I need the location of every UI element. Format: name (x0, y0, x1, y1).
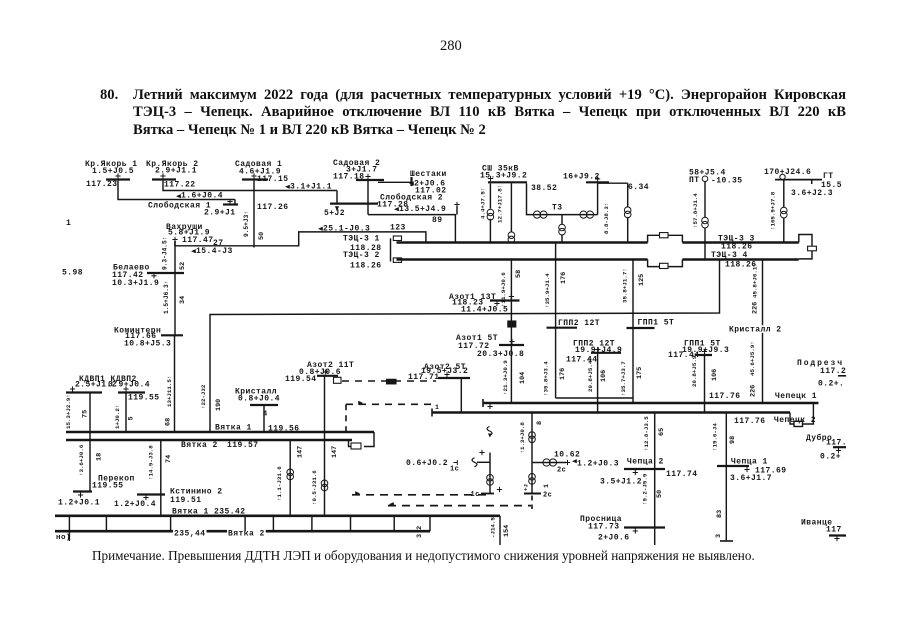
svg-text:Чепецк 1: Чепецк 1 (775, 392, 817, 401)
svg-text:Чепца 2: Чепца 2 (627, 458, 664, 467)
svg-text:50: 50 (656, 490, 664, 498)
svg-text:20.3+J0.8: 20.3+J0.8 (477, 350, 524, 359)
svg-text:6.34: 6.34 (628, 183, 649, 192)
wire Azot1-13T feeder (x=511) (510, 260, 512, 315)
bus Vyatka 1 110kV (214, 423, 253, 431)
feeder GPP1 from bus2 (x=633) (632, 260, 634, 328)
transformer T1 of SSh35 (489, 183, 491, 208)
svg-text:↑19.6-J4: ↑19.6-J4 (712, 423, 719, 451)
svg-text:1: 1 (543, 484, 551, 488)
svg-text:0.9+J0.4: 0.9+J0.4 (108, 381, 150, 390)
station Belaevo bus bar (147, 272, 184, 274)
dashed 220kV line Vyatka-Chepetsk N1 (352, 494, 487, 496)
svg-text:Вятка 2: Вятка 2 (181, 441, 218, 450)
svg-text:4: 4 (263, 411, 268, 419)
svg-text:147: 147 (297, 446, 305, 458)
footnote (92, 548, 755, 564)
wire Slobodskaya2 line to TEC bus (368, 215, 455, 243)
bus coupler right of TEC-3 3/4 (799, 235, 812, 259)
svg-text:117: 117 (826, 526, 842, 535)
svg-text:↑3.6+J0.6: ↑3.6+J0.6 (78, 444, 85, 476)
svg-text:15.3+J9.2: 15.3+J9.2 (480, 172, 527, 181)
svg-text:5+J2: 5+J2 (324, 209, 345, 218)
svg-text:Вятка 2: Вятка 2 (228, 530, 265, 539)
svg-text:↑1.3+J0.8: ↑1.3+J0.8 (519, 422, 526, 454)
svg-text:Т3: Т3 (552, 204, 563, 213)
svg-text:176: 176 (559, 368, 567, 380)
svg-text:но): но) (56, 534, 71, 542)
svg-text:9.5+J3↑: 9.5+J3↑ (243, 211, 250, 237)
svg-text:34: 34 (179, 296, 187, 304)
svg-text:9.3-J4.5↑: 9.3-J4.5↑ (162, 237, 169, 270)
svg-text:1+J0.2↑: 1+J0.2↑ (114, 405, 121, 429)
bus Vyatka 2 220kV (55, 530, 430, 533)
svg-text:1: 1 (435, 404, 439, 411)
svg-text:0.2+.: 0.2+. (818, 379, 844, 388)
svg-text:190: 190 (215, 399, 223, 411)
svg-text:98: 98 (729, 436, 737, 444)
dashed line Vyatka-Chepetsk (y=404) (346, 403, 434, 405)
svg-text:↑165.9+J7.8: ↑165.9+J7.8 (770, 191, 777, 230)
svg-text:20.8+J5.4↑: 20.8+J5.4↑ (587, 357, 594, 392)
svg-text:2.9+J1: 2.9+J1 (204, 209, 236, 218)
feeder Cheptsa 1 (x=726.3) (725, 413, 727, 542)
svg-text:3: 3 (715, 534, 723, 538)
wire KDVP1 to Vyatka1 and Perekop (89, 393, 91, 492)
station Sadovaya 2 bus bar (356, 179, 384, 181)
svg-text:52: 52 (179, 262, 187, 270)
wire Slobodskaya1 stub (234, 200, 236, 205)
flow label 25.1-J0.3 123 (318, 227, 323, 231)
svg-text:5: 5 (128, 416, 136, 420)
station Sadovaya 1 bus bar (242, 178, 268, 180)
svg-text:170+J24.6: 170+J24.6 (764, 168, 811, 177)
three-winding transformer T3 (527, 183, 598, 214)
svg-text:83: 83 (716, 510, 724, 518)
svg-text:226: 226 (752, 302, 760, 314)
svg-text:2с: 2с (557, 467, 566, 475)
svg-text:ПТ: ПТ (689, 176, 700, 185)
wire Kr.Yakor1 to Slobodskaya1 (118, 181, 235, 200)
svg-text:226: 226 (750, 385, 758, 397)
svg-text:1.2+J0.4: 1.2+J0.4 (114, 500, 156, 509)
svg-text:119.54: 119.54 (285, 375, 317, 384)
svg-text:1: 1 (66, 219, 71, 228)
wire GPP2 lower (x=555.6) (555, 328, 557, 399)
dashed 220kV line Vyatka-Chepetsk N2 (388, 505, 531, 507)
cable curl top (487, 427, 492, 436)
branch 2s (x=532) (531, 413, 533, 494)
svg-text:↑14.9-J3.8: ↑14.9-J3.8 (148, 445, 155, 480)
station Slobodskaya 1 bus bar (223, 203, 238, 205)
transformer T2 of SSh35 (510, 183, 512, 231)
svg-text:ТЭЦ-3 2: ТЭЦ-3 2 (343, 251, 380, 260)
svg-text:4.4+J7.5↑: 4.4+J7.5↑ (480, 188, 487, 219)
svg-text:58: 58 (515, 270, 523, 278)
svg-text:15.3+J2.9↑: 15.3+J2.9↑ (65, 394, 72, 429)
wire Sadovaya1 down to 15.4-J3 line (253, 181, 255, 248)
wire Vakrushi-Belaevo-Komintern vertical (174, 241, 176, 337)
wire Kr.Yakor2 to Sadovaya line (163, 181, 337, 191)
bus coupler mid between TEC-3 1/2 and 3/4 (648, 235, 683, 242)
svg-text:3.6+J2.3: 3.6+J2.3 (791, 189, 833, 198)
wire Komintern to Vyatka1 (174, 335, 176, 431)
svg-text:13.5+J4.9: 13.5+J4.9 (399, 205, 446, 214)
svg-text:235,44: 235,44 (174, 530, 206, 539)
svg-text:123: 123 (390, 224, 406, 233)
svg-text:↑9.2-J5.9: ↑9.2-J5.9 (642, 473, 649, 505)
bus Vyatka 2 110kV (180, 441, 219, 449)
bus Vyatka 1 220kV (171, 507, 247, 515)
svg-text:117.23: 117.23 (86, 180, 118, 189)
svg-text:20.8+J5.9↑: 20.8+J5.9↑ (691, 352, 698, 387)
svg-text:-J14.5: -J14.5 (490, 517, 497, 538)
svg-text:117.76: 117.76 (709, 392, 741, 401)
svg-text:ГПП1 5Т: ГПП1 5Т (638, 319, 675, 328)
svg-text:12.7+J17.8↑: 12.7+J17.8↑ (497, 185, 504, 223)
svg-text:119.55: 119.55 (128, 394, 160, 403)
svg-text:Кристалл 2: Кристалл 2 (729, 326, 782, 335)
svg-text:45.6+J5.9↑: 45.6+J5.9↑ (749, 341, 756, 376)
main tie line TEC-3 4 to Vyatka (y=314) (210, 260, 720, 432)
svg-text:154: 154 (503, 525, 511, 537)
svg-text:2.9+J1.1: 2.9+J1.1 (155, 167, 197, 176)
svg-text:117.22: 117.22 (164, 181, 196, 190)
svg-text:5.98: 5.98 (62, 269, 83, 278)
autotransformer Vyatka x=290 (289, 440, 291, 516)
bus coupler Vyatka 1-2 (364, 432, 374, 447)
svg-text:119.55: 119.55 (92, 482, 124, 491)
svg-text:10.8+J5.3: 10.8+J5.3 (124, 339, 171, 348)
svg-text:0.2+: 0.2+ (820, 453, 841, 462)
svg-text:-10.35: -10.35 (711, 177, 743, 186)
svg-text:117.71: 117.71 (408, 373, 440, 382)
svg-text:1.5+J6.3↑: 1.5+J6.3↑ (163, 281, 170, 314)
svg-text:50: 50 (258, 232, 266, 240)
svg-text:65: 65 (658, 428, 666, 436)
svg-text:8: 8 (536, 421, 544, 425)
svg-text:1.2+J0.1: 1.2+J0.1 (58, 499, 100, 508)
svg-text:8.8-J8.3↑: 8.8-J8.3↑ (603, 203, 610, 234)
feeder GPP2 from bus1 (x=555.6) (555, 243, 557, 328)
svg-text:2+J0.6: 2+J0.6 (598, 534, 630, 543)
svg-text:175: 175 (636, 367, 644, 379)
flow label 1.6+J0.4 (176, 194, 181, 198)
wire Sadovaya2 to Shestaki (378, 181, 411, 183)
svg-text:1.5+J0.5: 1.5+J0.5 (92, 167, 134, 176)
svg-text:13+J11.5↑: 13+J11.5↑ (166, 376, 173, 407)
stub below Vyatka2 220 bus (68, 531, 70, 541)
bus coupler left of TEC-3 1/2 (390, 238, 392, 261)
svg-text:118.26: 118.26 (350, 262, 382, 271)
svg-text:106: 106 (600, 370, 608, 382)
svg-text:117.2: 117.2 (820, 367, 846, 376)
coupler at right end of Chepetsk 2 (790, 413, 794, 425)
svg-text:16+J9.2: 16+J9.2 (563, 173, 600, 182)
feeder Kristall 2 (x=762.5) (762, 260, 764, 403)
dashed tie Azot2 11T - Azot2 5T (y=381) (342, 380, 436, 382)
svg-text:10.62: 10.62 (554, 451, 580, 460)
svg-text:119.57: 119.57 (227, 441, 259, 450)
svg-text:3.1+J1.1: 3.1+J1.1 (290, 182, 332, 191)
wire Vakrushi to TEC3 line 123 (175, 232, 426, 246)
svg-text:75: 75 (82, 410, 90, 418)
svg-text:3.6+J1.7: 3.6+J1.7 (730, 474, 772, 483)
svg-text:↑35.9+J1.4: ↑35.9+J1.4 (544, 273, 551, 308)
svg-text:18: 18 (96, 453, 104, 461)
svg-text:1.6+J0.4: 1.6+J0.4 (181, 192, 223, 201)
wire 220 bus corner down (499, 516, 501, 545)
svg-text:1с: 1с (450, 466, 459, 474)
junction black square on Azot feeder (508, 321, 516, 327)
svg-text:106: 106 (711, 369, 719, 381)
svg-text:45.8+J6.1↑: 45.8+J6.1↑ (752, 263, 759, 298)
svg-text:117.73: 117.73 (588, 523, 620, 532)
bus ties 220kV (68, 516, 70, 531)
item number 80 (100, 87, 118, 104)
svg-text:ГТ: ГТ (823, 172, 834, 181)
transformer tie x=160.8 (14.9-J3.8/74) (160, 440, 162, 516)
wire Sadovaya2 down to 5+J2 bar (367, 181, 369, 215)
svg-text:3.2: 3.2 (416, 526, 424, 538)
svg-text:147: 147 (331, 446, 339, 458)
wire GPP1 lower (x=633) (632, 328, 634, 403)
svg-text:89: 89 (432, 216, 443, 225)
wire KDVP2 to Vyatka1 (125, 393, 127, 432)
svg-text:↑0.5-J31.6: ↑0.5-J31.6 (311, 470, 318, 505)
svg-text:2с: 2с (543, 492, 552, 500)
station Shestaki bus bar (410, 177, 412, 186)
wire to 6.34 transformer (598, 182, 628, 184)
svg-text:↑1.1-J31.6: ↑1.1-J31.6 (276, 466, 283, 501)
svg-text:ТЭЦ-3 1: ТЭЦ-3 1 (343, 235, 380, 244)
svg-text:119.51: 119.51 (170, 496, 202, 505)
svg-text:↑22-J32: ↑22-J32 (200, 384, 207, 409)
svg-text:117.26: 117.26 (257, 203, 289, 212)
svg-text:10.3+J1.9: 10.3+J1.9 (112, 279, 159, 288)
svg-text:0.8+J0.4: 0.8+J0.4 (238, 395, 280, 404)
svg-text:74: 74 (165, 455, 173, 463)
svg-text:Слободская 1: Слободская 1 (148, 202, 211, 211)
svg-text:3.5+J1.2: 3.5+J1.2 (600, 478, 642, 487)
svg-text:↑35.8+J3.4: ↑35.8+J3.4 (543, 361, 550, 396)
svg-text:125: 125 (638, 274, 646, 286)
svg-text:↑35.7+J3.7: ↑35.7+J3.7 (620, 361, 627, 396)
station Kr.Yakor 2 bus bar (152, 178, 176, 180)
svg-text:15.4-J3: 15.4-J3 (196, 247, 233, 256)
svg-text:↑57.8+J1.4: ↑57.8+J1.4 (692, 193, 699, 228)
wire 5+J2 node line (336, 191, 338, 204)
svg-text:176: 176 (560, 272, 568, 284)
svg-text:35.8+J1.7↑: 35.8+J1.7↑ (622, 268, 629, 303)
svg-text:117.76: 117.76 (734, 417, 766, 426)
heading paragraph (133, 87, 846, 139)
page number (440, 38, 462, 55)
svg-text:Шестаки: Шестаки (410, 170, 447, 179)
wire Azot2 5T to Chepetsk2 (460, 378, 462, 413)
svg-text:25.1-J0.3: 25.1-J0.3 (323, 224, 370, 233)
svg-text:117.47: 117.47 (182, 236, 214, 245)
svg-text:117.74: 117.74 (666, 470, 698, 479)
svg-text:+J: +J (523, 484, 530, 491)
open breaker square of Azot2 11T (334, 377, 342, 383)
svg-text:↑12.8-J3.5: ↑12.8-J3.5 (643, 416, 650, 451)
bar between GPP feeders y=398 (556, 397, 633, 399)
flow label 3.1+J1.1 (285, 185, 290, 189)
svg-text:38.52: 38.52 (531, 184, 557, 193)
svg-text:104: 104 (519, 372, 527, 384)
svg-text:1.2+J0.3: 1.2+J0.3 (577, 460, 619, 469)
svg-text:↑11.9+J0.6: ↑11.9+J0.6 (500, 272, 507, 307)
feeder Cheptsa 2 / Prosnitsa (x=654.7) (654, 413, 656, 546)
svg-text:↑21.3+J0.9: ↑21.3+J0.9 (502, 360, 509, 395)
dashed wire down to Vyatka1 (345, 404, 347, 431)
svg-text:68: 68 (165, 418, 173, 426)
station Kr.Yakor 1 bus bar (106, 178, 130, 180)
